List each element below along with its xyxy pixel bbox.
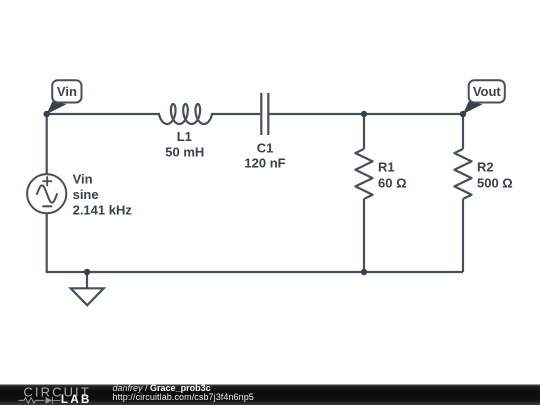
svg-text:500 Ω: 500 Ω xyxy=(477,176,513,191)
voltage source V1 circle xyxy=(27,174,66,213)
svg-text:60 Ω: 60 Ω xyxy=(378,176,407,191)
wire: R2 top lead xyxy=(462,114,464,149)
svg-text:C1: C1 xyxy=(257,140,274,155)
svg-text:sine: sine xyxy=(73,187,99,202)
svg-text:Vout: Vout xyxy=(473,84,502,99)
source V1 plus sign xyxy=(42,176,52,186)
junction dot: R1 top xyxy=(361,111,367,117)
logo doodle wire-resistor-diode xyxy=(19,397,61,404)
ground triangle xyxy=(71,288,104,305)
capacitor C1 right plate xyxy=(267,93,269,135)
flag box Vin xyxy=(52,80,81,102)
svg-text:R1: R1 xyxy=(378,160,395,175)
svg-text:2.141 kHz: 2.141 kHz xyxy=(73,203,133,218)
wire: capacitor C1 right plate to R1 top junction xyxy=(269,113,364,115)
wire: R1 top lead xyxy=(363,114,365,149)
source V1 sine wave xyxy=(37,185,57,202)
logo diode triangle xyxy=(46,397,53,404)
wire: R1 bottom lead xyxy=(363,199,365,272)
flag box Vout xyxy=(469,80,505,102)
capacitor C1 left plate xyxy=(260,93,262,135)
svg-text:50 mH: 50 mH xyxy=(165,144,204,159)
flag pointer Vin xyxy=(47,101,67,114)
svg-text:Vin: Vin xyxy=(73,172,93,187)
wire: bottom net R1 to ground junction xyxy=(87,271,364,273)
wire: R2 bottom lead xyxy=(462,199,464,272)
junction dot: ground xyxy=(84,269,90,275)
flag pointer Vout xyxy=(463,101,483,114)
svg-text:Vin: Vin xyxy=(57,84,77,99)
inductor L1 coil xyxy=(159,104,212,124)
ground stem xyxy=(86,272,88,288)
resistor R1 zigzag xyxy=(355,149,372,199)
svg-text:http://circuitlab.com/csb7j3f4: http://circuitlab.com/csb7j3f4n6np5 xyxy=(113,392,254,402)
wire: left vertical source top lead xyxy=(46,113,48,174)
junction dot: R1 bottom xyxy=(361,269,367,275)
svg-text:120 nF: 120 nF xyxy=(244,156,285,171)
wire top: node Vin to inductor L1 xyxy=(47,113,160,115)
svg-text:LAB: LAB xyxy=(61,394,92,405)
svg-text:L1: L1 xyxy=(177,129,192,144)
junction dot: node Vin xyxy=(44,111,50,117)
wire: left vertical source bottom lead xyxy=(46,213,48,273)
junction dot: node Vout xyxy=(460,111,466,117)
footer bar xyxy=(0,384,540,405)
wire: bottom net ground junction to left corner xyxy=(47,271,87,273)
resistor R2 zigzag xyxy=(454,149,471,199)
svg-text:R2: R2 xyxy=(477,160,494,175)
wire: inductor L1 to capacitor C1 left plate xyxy=(212,113,261,115)
wire: bottom net R2 to R1 xyxy=(364,271,463,273)
wire: R1 top junction to node Vout xyxy=(364,113,463,115)
source V1 minus sign xyxy=(42,205,52,207)
